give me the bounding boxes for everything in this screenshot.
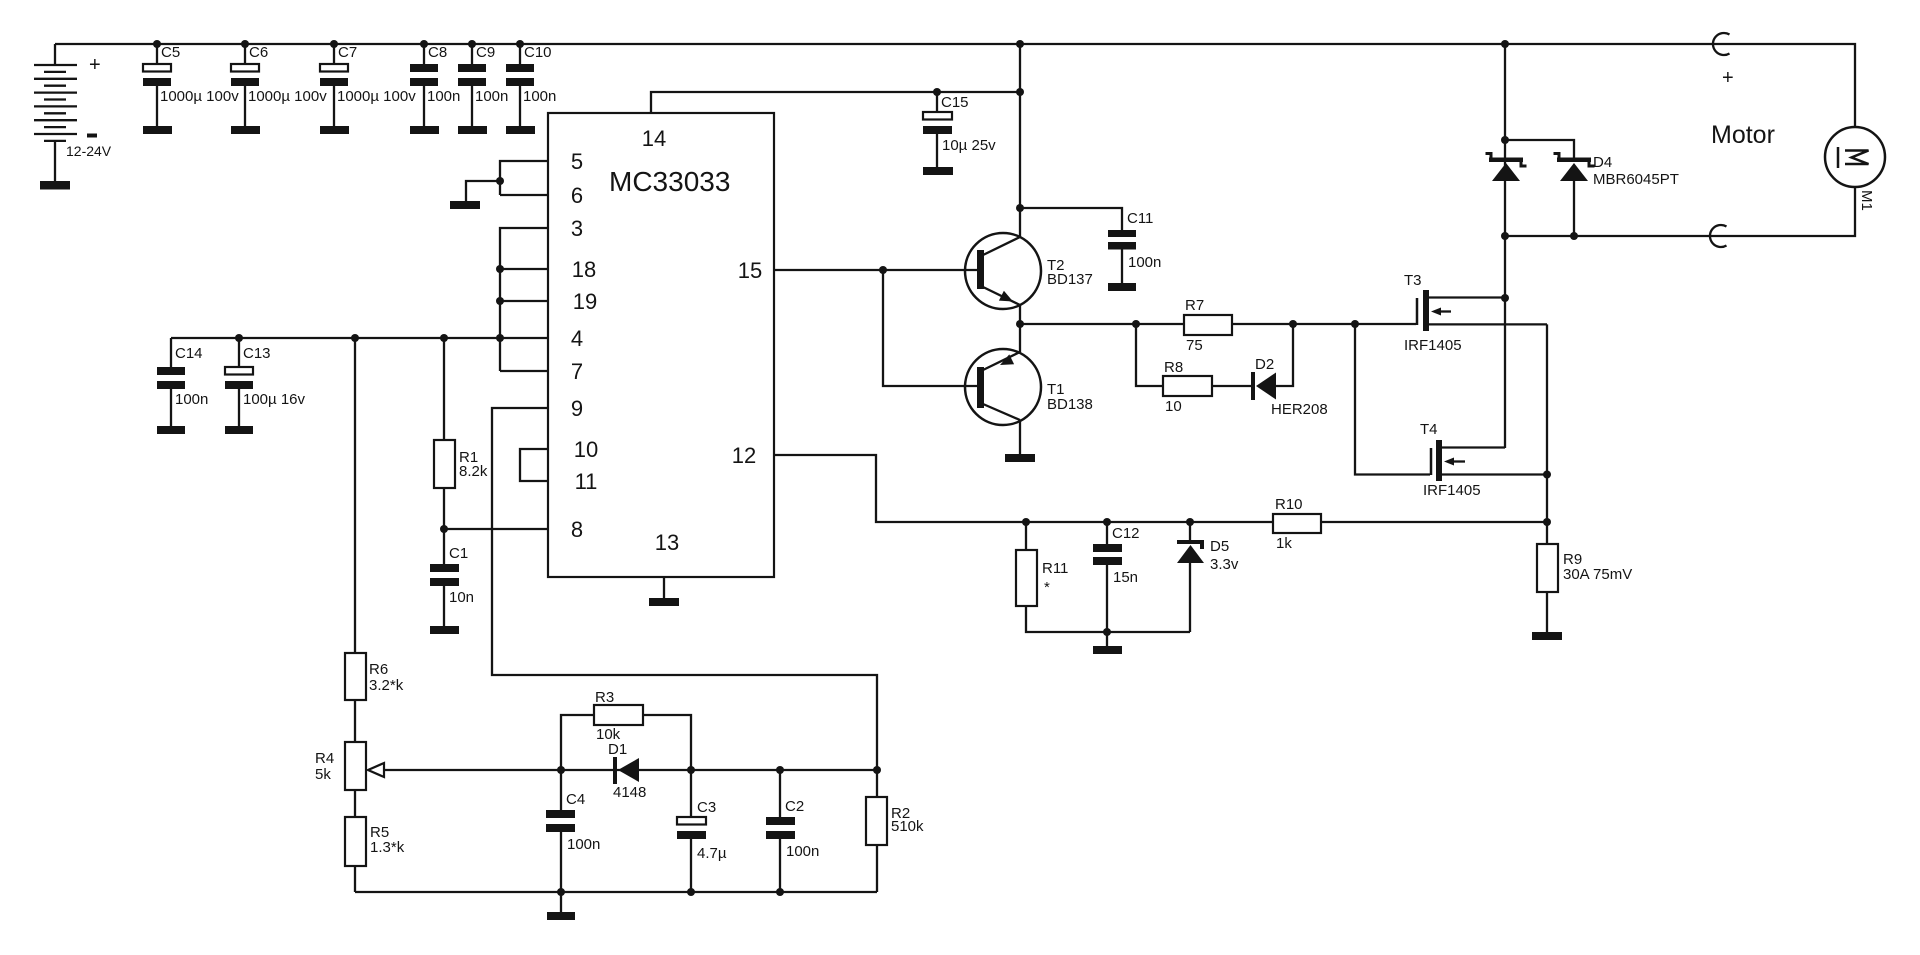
svg-text:D2: D2 bbox=[1255, 356, 1274, 373]
svg-text:10: 10 bbox=[1165, 398, 1182, 415]
diode D1 4148 bbox=[608, 741, 646, 801]
svg-text:BD137: BD137 bbox=[1047, 271, 1093, 288]
svg-text:8: 8 bbox=[571, 517, 583, 542]
svg-text:C12: C12 bbox=[1112, 525, 1140, 542]
svg-text:3: 3 bbox=[571, 216, 583, 241]
mosfet T4 IRF1405 bbox=[1355, 324, 1551, 499]
svg-text:100n: 100n bbox=[175, 391, 208, 408]
svg-text:1.3*k: 1.3*k bbox=[370, 839, 405, 856]
wire T2 emitter to T1 emitter bbox=[1016, 305, 1024, 352]
svg-text:HER208: HER208 bbox=[1271, 401, 1328, 418]
capacitor C6 1000u 100v bbox=[231, 44, 327, 126]
svg-text:C14: C14 bbox=[175, 345, 203, 362]
pin 14 bbox=[642, 92, 1020, 151]
svg-text:IRF1405: IRF1405 bbox=[1423, 482, 1481, 499]
pin 9 wire bbox=[492, 396, 877, 770]
diode D2 HER208 bbox=[1251, 324, 1328, 418]
svg-text:+: + bbox=[89, 54, 101, 76]
resistor R2 510k bbox=[866, 766, 924, 892]
wire pin15 to T1 base bbox=[879, 266, 977, 386]
svg-text:100n: 100n bbox=[475, 88, 508, 105]
svg-text:D4: D4 bbox=[1593, 154, 1612, 171]
pin 12 wire bbox=[732, 443, 1546, 522]
capacitor C8 100n bbox=[410, 44, 460, 126]
svg-text:18: 18 bbox=[572, 257, 596, 282]
svg-text:IRF1405: IRF1405 bbox=[1404, 337, 1462, 354]
pin 4 wire bbox=[171, 326, 583, 351]
svg-text:9: 9 bbox=[571, 396, 583, 421]
motor M1 bbox=[1711, 67, 1885, 211]
wire top +V rail bbox=[55, 44, 1855, 127]
wire gate drive node bbox=[1020, 320, 1416, 328]
svg-text:100n: 100n bbox=[523, 88, 556, 105]
ground (C5) bbox=[143, 126, 172, 134]
capacitor C4 100n bbox=[546, 766, 600, 892]
svg-text:*: * bbox=[1044, 579, 1050, 596]
svg-text:4148: 4148 bbox=[613, 784, 646, 801]
wire T3/T4 drain vertical bbox=[1501, 44, 1509, 448]
svg-text:C6: C6 bbox=[249, 44, 268, 61]
svg-text:19: 19 bbox=[573, 289, 597, 314]
resistor R1 8.2k bbox=[434, 334, 488, 533]
svg-text:C8: C8 bbox=[428, 44, 447, 61]
svg-text:R10: R10 bbox=[1275, 496, 1303, 513]
connector arc (motor negative) bbox=[1710, 225, 1727, 247]
svg-text:R6: R6 bbox=[369, 661, 388, 678]
ground (pin 13) bbox=[649, 598, 679, 606]
pin 3 bbox=[500, 216, 583, 371]
pin 6 bbox=[500, 183, 583, 208]
mosfet T3 IRF1405 bbox=[1404, 272, 1547, 354]
potentiometer R4 5k bbox=[315, 742, 877, 817]
pin 13 bbox=[655, 530, 679, 598]
svg-text:C5: C5 bbox=[161, 44, 180, 61]
svg-text:75: 75 bbox=[1186, 337, 1203, 354]
capacitor C14 100n bbox=[157, 338, 208, 426]
resistor R5 1.3*k bbox=[345, 817, 405, 892]
resistor R3 10k bbox=[561, 689, 691, 770]
ground (C15) bbox=[923, 167, 953, 175]
capacitor C2 100n bbox=[766, 766, 819, 896]
pin 10/11 jumper bbox=[520, 437, 598, 494]
svg-text:C11: C11 bbox=[1127, 210, 1153, 227]
ground (C11) bbox=[1108, 283, 1136, 291]
svg-text:C4: C4 bbox=[566, 791, 585, 808]
svg-text:12: 12 bbox=[732, 443, 756, 468]
svg-text:M1: M1 bbox=[1858, 190, 1875, 211]
svg-text:C7: C7 bbox=[338, 44, 357, 61]
capacitor C3 4.7u bbox=[677, 766, 727, 896]
svg-text:3.3v: 3.3v bbox=[1210, 556, 1239, 573]
transistor T1 BD138 bbox=[965, 349, 1093, 454]
svg-text:T3: T3 bbox=[1404, 272, 1422, 289]
resistor R7 75 bbox=[1184, 297, 1232, 354]
resistor R10 1k bbox=[1273, 496, 1321, 552]
dual diode D4 MBR6045PT bbox=[1486, 140, 1679, 240]
svg-text:R11: R11 bbox=[1042, 560, 1068, 577]
svg-text:10: 10 bbox=[574, 437, 598, 462]
svg-text:100µ 16v: 100µ 16v bbox=[243, 391, 306, 408]
svg-text:R7: R7 bbox=[1185, 297, 1204, 314]
capacitor C5 1000u 100v bbox=[143, 44, 239, 126]
capacitor C15 10u 25v bbox=[923, 88, 1024, 167]
capacitor C9 100n bbox=[458, 44, 508, 126]
IC U1 MC33033 bbox=[548, 113, 774, 577]
pin 18 bbox=[496, 257, 596, 282]
zener D5 3.3v bbox=[1177, 518, 1239, 632]
svg-text:R4: R4 bbox=[315, 750, 334, 767]
svg-text:T4: T4 bbox=[1420, 421, 1438, 438]
svg-text:C10: C10 bbox=[524, 44, 552, 61]
capacitor C7 1000u 100v bbox=[320, 44, 416, 126]
pin 19 bbox=[496, 289, 597, 314]
ground (R9) bbox=[1532, 632, 1562, 640]
svg-text:Motor: Motor bbox=[1711, 121, 1775, 149]
svg-text:BD138: BD138 bbox=[1047, 396, 1093, 413]
svg-text:15n: 15n bbox=[1113, 569, 1138, 586]
wire +V to T2 collector bbox=[1019, 44, 1021, 237]
svg-text:12-24V: 12-24V bbox=[66, 143, 112, 159]
svg-text:3.2*k: 3.2*k bbox=[369, 677, 404, 694]
svg-text:MC33033: MC33033 bbox=[609, 166, 730, 197]
svg-text:100n: 100n bbox=[427, 88, 460, 105]
capacitor C1 10n bbox=[430, 529, 474, 626]
svg-text:14: 14 bbox=[642, 126, 666, 151]
svg-text:7: 7 bbox=[571, 359, 583, 384]
resistor R8 10 bbox=[1136, 324, 1252, 415]
svg-text:5k: 5k bbox=[315, 766, 331, 783]
node rail junctions bbox=[153, 40, 1509, 48]
svg-text:C2: C2 bbox=[785, 798, 804, 815]
wire bottom rail bbox=[355, 891, 877, 893]
svg-text:D5: D5 bbox=[1210, 538, 1229, 555]
ground (battery) bbox=[40, 181, 70, 190]
ground (C6) bbox=[231, 126, 260, 134]
svg-text:C15: C15 bbox=[941, 94, 969, 111]
svg-text:C3: C3 bbox=[697, 799, 716, 816]
svg-text:R8: R8 bbox=[1164, 359, 1183, 376]
svg-text:6: 6 bbox=[571, 183, 583, 208]
svg-text:100n: 100n bbox=[567, 836, 600, 853]
ground (C10) bbox=[506, 126, 535, 134]
svg-text:510k: 510k bbox=[891, 818, 924, 835]
ground (C7) bbox=[320, 126, 349, 134]
ground (C9) bbox=[458, 126, 487, 134]
ground (C8) bbox=[410, 126, 439, 134]
svg-text:1k: 1k bbox=[1276, 535, 1292, 552]
ground (C14) bbox=[157, 426, 185, 434]
pin 15 wire bbox=[738, 258, 978, 283]
resistor R9 30A 75mV shunt bbox=[1537, 518, 1632, 632]
svg-text:MBR6045PT: MBR6045PT bbox=[1593, 171, 1679, 188]
svg-text:+: + bbox=[1722, 67, 1734, 89]
ground (bottom rail) bbox=[547, 888, 575, 920]
svg-text:8.2k: 8.2k bbox=[459, 463, 488, 480]
wire pin5/6 to ground bbox=[466, 177, 504, 201]
svg-text:1000µ 100v: 1000µ 100v bbox=[160, 88, 239, 105]
svg-text:4.7µ: 4.7µ bbox=[697, 845, 727, 862]
svg-text:C1: C1 bbox=[449, 545, 468, 562]
svg-text:10n: 10n bbox=[449, 589, 474, 606]
svg-text:D1: D1 bbox=[608, 741, 627, 758]
ground (C1) bbox=[430, 626, 459, 634]
ground (pins 5,6) bbox=[450, 201, 480, 209]
ground (C12) bbox=[1093, 646, 1122, 654]
wire T3 source to T4 source bbox=[1546, 324, 1548, 522]
svg-text:R3: R3 bbox=[595, 689, 614, 706]
connector arc (top rail) bbox=[1713, 33, 1730, 55]
svg-text:30A 75mV: 30A 75mV bbox=[1563, 566, 1632, 583]
capacitor C10 100n bbox=[506, 44, 556, 126]
ground (T1 collector) bbox=[1005, 454, 1035, 462]
svg-text:4: 4 bbox=[571, 326, 583, 351]
svg-text:15: 15 bbox=[738, 258, 762, 283]
svg-text:100n: 100n bbox=[786, 843, 819, 860]
ground (C13) bbox=[225, 426, 253, 434]
svg-text:100n: 100n bbox=[1128, 254, 1161, 271]
resistor R11 * bbox=[1016, 518, 1107, 632]
pin 5 bbox=[500, 149, 583, 195]
wire motor negative bbox=[1505, 187, 1855, 236]
resistor R6 3.2*k bbox=[345, 334, 404, 742]
pin 7 bbox=[500, 359, 583, 384]
transistor T2 BD137 bbox=[965, 233, 1093, 309]
battery B1 12-24V bbox=[34, 44, 112, 181]
pin 8 wire bbox=[444, 517, 583, 542]
svg-text:10µ 25v: 10µ 25v bbox=[942, 137, 996, 154]
svg-text:5: 5 bbox=[571, 149, 583, 174]
svg-text:11: 11 bbox=[575, 469, 598, 494]
svg-text:1000µ 100v: 1000µ 100v bbox=[248, 88, 327, 105]
svg-text:1000µ 100v: 1000µ 100v bbox=[337, 88, 416, 105]
svg-text:C9: C9 bbox=[476, 44, 495, 61]
capacitor C13 100u 16v bbox=[225, 334, 306, 426]
capacitor C11 100n bbox=[1016, 204, 1161, 283]
svg-text:C13: C13 bbox=[243, 345, 271, 362]
svg-text:13: 13 bbox=[655, 530, 679, 555]
wire R11/C12/D5 bottom bbox=[1107, 631, 1190, 633]
capacitor C12 15n bbox=[1093, 518, 1140, 646]
